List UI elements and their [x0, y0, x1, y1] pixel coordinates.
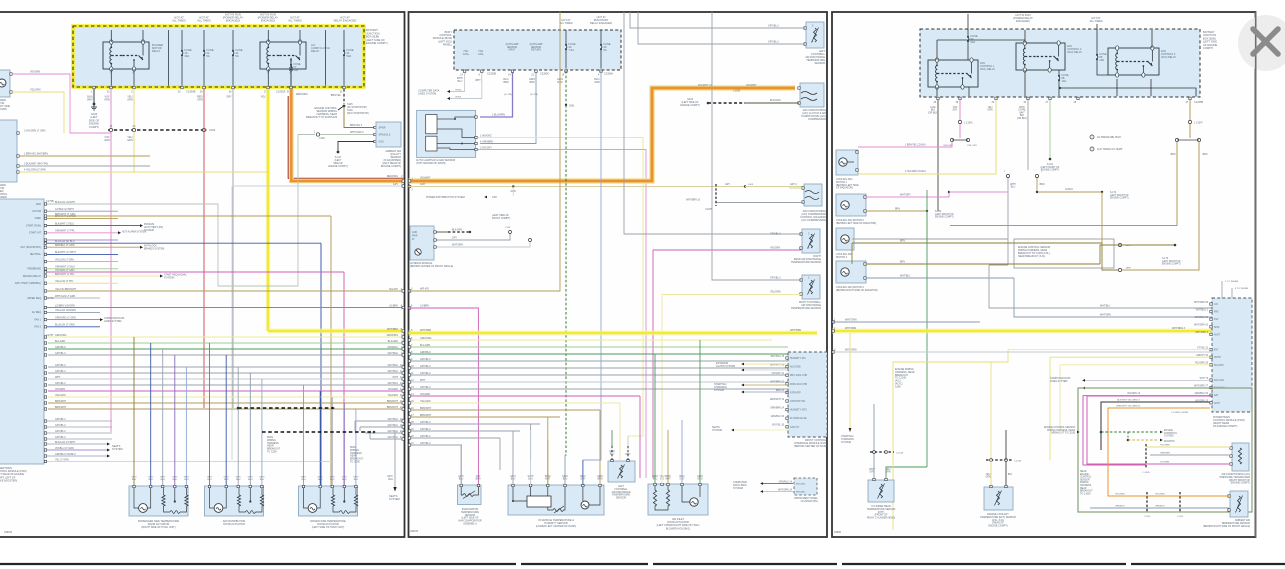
air inlet pin label 682 — [679, 476, 684, 481]
PCM pin row 5 — [44, 232, 46, 234]
splice right a — [1175, 138, 1178, 141]
solenoid wire label — [686, 200, 701, 202]
svg-text:VIO/LGN LT GRN: VIO/LGN LT GRN — [55, 258, 74, 261]
bundle left label 10 — [55, 364, 66, 367]
in-vehicle pin label 547.8 — [545, 476, 551, 481]
rr pin nums2 — [808, 247, 810, 250]
wire BLU/CAN down — [583, 71, 601, 460]
svg-text:1 BRN/YEL C1041A: 1 BRN/YEL C1041A — [905, 144, 926, 147]
p2 edge pin stub 13 — [408, 388, 410, 390]
svg-text:NEAR: NEAR — [1080, 487, 1087, 490]
passenger temperature door actuator pin 4 — [174, 485, 176, 487]
bundle pin stub 12 — [44, 378, 46, 380]
svg-text:BREAKOUT TO S125/S129: BREAKOUT TO S125/S129 — [306, 116, 337, 119]
edge pin p2 1 — [412, 178, 414, 181]
splice right bar — [1177, 139, 1199, 141]
FCIM pin 23 — [786, 391, 788, 393]
svg-text:YEL/: YEL/ — [886, 469, 891, 471]
svg-text:ENGINE COMPT): ENGINE COMPT) — [381, 165, 401, 168]
svg-text:GRY/BLU: GRY/BLU — [420, 372, 431, 375]
BCM pin 6 — [481, 70, 483, 72]
svg-text:GRY/BLU: GRY/BLU — [420, 421, 431, 424]
svg-text:C-1035: C-1035 — [1014, 461, 1022, 463]
air distribution door actuator pin 5 — [261, 485, 263, 487]
p2 row label 7 — [420, 344, 431, 347]
svg-text:BLK/WHT LT BLU: BLK/WHT LT BLU — [55, 222, 74, 225]
svg-text:WHT/BRN: WHT/BRN — [420, 329, 431, 332]
battery junction box BJB dashed border — [73, 26, 364, 87]
PCM p3 pin label 29 — [1195, 363, 1209, 365]
splice labels — [943, 145, 953, 147]
edge pin stub 18 — [402, 420, 404, 422]
BCM pin 4 num — [598, 74, 600, 77]
BJB pin 1 — [93, 86, 95, 88]
svg-text:AAT: AAT — [1214, 394, 1219, 397]
auto lamp pin4 label — [480, 141, 493, 144]
svg-text:1 C1041: 1 C1041 — [964, 123, 973, 125]
near harness note — [1080, 470, 1093, 495]
PCM p3 inner label 77 — [1214, 387, 1227, 390]
bundle left label 13 — [55, 382, 66, 385]
wire BRN right drop — [1189, 100, 1191, 120]
svg-text:YEL/GRN: YEL/GRN — [420, 400, 431, 403]
driver temperature door actuator motor — [308, 504, 317, 513]
wire YEL/GRN row — [1060, 364, 1212, 366]
bundle row label 13 — [388, 382, 399, 385]
svg-text:SPWS/CLK: SPWS/CLK — [379, 135, 391, 137]
svg-text:ENGINE COMPT): ENGINE COMPT) — [935, 217, 954, 219]
edge pin4 — [401, 305, 403, 308]
module inner labels — [412, 232, 418, 241]
svg-text:TEMPERATURE SENSOR: TEMPERATURE SENSOR — [791, 261, 821, 264]
svg-text:C-1035B C1035B: C-1035B C1035B — [1171, 412, 1189, 414]
svg-text:C-100: C-100 — [1177, 516, 1184, 518]
svg-text:VIO/: VIO/ — [953, 107, 958, 109]
svg-text:ENGINE COMPT): ENGINE COMPT) — [680, 104, 699, 107]
svg-text:BLU: BLU — [149, 479, 154, 481]
bundle pin stub 21 — [44, 438, 46, 440]
left footwell air discharge temperature sensor — [806, 22, 824, 48]
seat row arrow 0 — [107, 443, 110, 446]
svg-text:YEL/GRN: YEL/GRN — [55, 394, 66, 397]
svg-text:WHT/: WHT/ — [1019, 107, 1025, 109]
fan yellow label — [987, 107, 992, 112]
wire WHT/BRN solenoid — [716, 202, 803, 204]
PCM long pin 4 — [44, 290, 46, 292]
p2 row pin 21 — [411, 442, 414, 445]
dashed connector ambient a — [1146, 492, 1148, 512]
svg-text:WHT 76: WHT 76 — [1200, 378, 1209, 380]
transducer pin 3 — [1230, 463, 1232, 465]
cylinder head thermistor — [878, 484, 885, 499]
sensor inner label 3 — [379, 142, 384, 144]
bundle pin stub 13 — [44, 384, 46, 386]
harness dashed line C290b — [262, 431, 374, 433]
svg-text:VREF: VREF — [35, 217, 42, 220]
FCIM pin 23 inner label — [790, 391, 801, 394]
BCM pin 21 — [535, 70, 537, 72]
fan control 3 relay — [1108, 46, 1159, 77]
edge label3 — [389, 288, 398, 291]
svg-text:VIO/GRN 13: VIO/GRN 13 — [1127, 393, 1141, 395]
joint label — [1065, 189, 1073, 191]
label hot3 — [223, 13, 244, 23]
power distribution label GRY — [492, 196, 498, 199]
svg-text:FAN 1: FAN 1 — [34, 318, 41, 321]
wire WHT/BLU long run — [852, 238, 1008, 240]
actuator1 feed label 5 — [184, 477, 190, 482]
wire p2 row 18 — [409, 423, 541, 425]
svg-text:WHT/: WHT/ — [1010, 184, 1016, 186]
wire VIO/GRN inner loop — [1145, 447, 1147, 465]
junction S163 label — [748, 184, 754, 186]
svg-text:RUN/STM: RUN/STM — [1164, 441, 1175, 443]
svg-text:BRN: BRN — [476, 479, 481, 481]
svg-text:GRY/BLU: GRY/BLU — [55, 364, 66, 367]
p2 row pin 15 — [411, 400, 414, 403]
wire long row 4 — [47, 290, 404, 292]
svg-text:VIO/GRN: VIO/GRN — [30, 71, 40, 74]
svg-text:GRY/BLU: GRY/BLU — [770, 277, 781, 280]
junction fan3 right — [1174, 244, 1177, 247]
module caption — [410, 262, 453, 268]
air distribution door actuator internal wires — [210, 488, 263, 513]
transducer caption — [1220, 473, 1251, 485]
wire GRY thin yellow — [409, 186, 804, 188]
ect pin 2 — [1005, 485, 1007, 487]
svg-text:EVT: EVT — [1214, 350, 1219, 352]
svg-text:BLU: BLU — [161, 479, 166, 481]
wire p2 row 15 drop — [619, 403, 621, 460]
air inlet door actuator — [648, 484, 708, 515]
PCM p3 pin label 50 — [1194, 302, 1209, 304]
left pin 3 — [411, 288, 413, 291]
panel2 sheet code — [410, 530, 418, 533]
passenger temperature door actuator caption — [138, 520, 180, 529]
body control module BCM box — [454, 30, 621, 70]
svg-text:(LEFT SIDE OF HVAC UNIT): (LEFT SIDE OF HVAC UNIT) — [312, 526, 345, 529]
svg-text:WR-VIO: WR-VIO — [420, 288, 429, 291]
svg-text:GRN/BLU 22: GRN/BLU 22 — [1195, 317, 1209, 319]
legend 2 num — [1091, 149, 1093, 151]
engine compartment lamp module — [410, 226, 434, 260]
wire GRY/BLU footwell 4 — [638, 12, 805, 44]
edge pin stub 17 — [402, 408, 404, 410]
bundle left label 6 — [55, 334, 67, 337]
magenta loop — [1083, 394, 1210, 467]
computer data lines text — [418, 90, 440, 96]
wire BRN long run — [852, 242, 1102, 244]
svg-text:C-1035: C-1035 — [1142, 472, 1150, 474]
harness pointer line — [338, 107, 343, 111]
edge pin stub 6 — [402, 336, 404, 338]
seat row label 1 — [55, 447, 74, 450]
wire label anti — [387, 475, 393, 481]
air distribution door actuator pin 2 — [225, 485, 227, 487]
svg-text:GRN: GRN — [104, 98, 110, 101]
blower pin 1 — [10, 73, 12, 75]
svg-text:ENGINE: ENGINE — [1164, 430, 1173, 432]
PCM p3 inner label 22 — [1214, 319, 1219, 321]
svg-text:GRY: GRY — [226, 96, 232, 99]
wire GRY module b — [437, 232, 511, 240]
svg-text:IGN SW: IGN SW — [32, 210, 42, 213]
wire drop lf2 dashed — [627, 446, 629, 460]
svg-text:(6 LPM): (6 LPM) — [504, 94, 512, 96]
svg-text:INPUT: INPUT — [508, 49, 516, 52]
PCM row 14 name — [32, 311, 41, 314]
air inlet pin x700 — [699, 483, 701, 485]
wire fan ctl drop — [1027, 170, 1029, 278]
svg-text:(OR BLK): (OR BLK) — [928, 112, 938, 114]
svg-text:BLU: BLU — [330, 479, 335, 481]
fan2b label — [895, 209, 900, 211]
svg-text:GY/BLK GY/WHT: GY/BLK GY/WHT — [55, 208, 74, 211]
BJB p3 pin 25 num — [934, 101, 937, 104]
p2 edge pin stub 19 — [408, 430, 410, 432]
svg-text:5A: 5A — [235, 54, 238, 58]
BJB pin 15 number — [178, 90, 181, 93]
edge pin stub 15 — [402, 396, 404, 398]
svg-text:GRY/BLU: GRY/BLU — [388, 352, 399, 355]
bundle row pin 14 — [400, 388, 403, 391]
module pin in — [434, 246, 436, 248]
bundle pin stub 19 — [44, 426, 46, 428]
wire FAN CAN 2w — [1085, 387, 1212, 389]
svg-text:HUMIDITY WTS: HUMIDITY WTS — [790, 410, 807, 412]
dashed link yellow — [1128, 439, 1158, 441]
air distribution door actuator caption — [223, 520, 246, 526]
BLU wire label — [594, 78, 600, 84]
orange connector label — [733, 90, 741, 93]
svg-text:SYSTEM: SYSTEM — [714, 389, 724, 392]
bundle row pin 17 — [400, 406, 403, 409]
bundle pin stub 17 — [44, 408, 46, 410]
in-vehicle caption — [536, 519, 577, 528]
PCM row 2 name — [32, 210, 42, 213]
svg-text:SULOPN: SULOPN — [1214, 365, 1224, 367]
mid conn labels — [1004, 171, 1006, 173]
wire VIO fan feed — [959, 100, 961, 120]
svg-text:GRY/BLU: GRY/BLU — [420, 365, 431, 368]
svg-text:ENGINE CONTROL SENSOR: ENGINE CONTROL SENSOR — [1044, 427, 1075, 429]
PCM p3 pin 29 — [1210, 364, 1212, 366]
svg-text:BLK/WHT GY/WHT: BLK/WHT GY/WHT — [55, 251, 76, 254]
fan motor4 pin 2 — [864, 277, 866, 279]
blower pin 2 — [10, 91, 12, 93]
label hot6 — [334, 16, 357, 23]
svg-text:SYSTEM: SYSTEM — [1164, 436, 1174, 438]
svg-text:LIGHTS SYSTEM: LIGHTS SYSTEM — [716, 365, 735, 368]
right rear air discharge temperature sensor thermistor — [808, 234, 815, 249]
svg-text:ENGINE COMPT): ENGINE COMPT) — [1231, 482, 1250, 485]
fan control 2 relay name — [1067, 45, 1082, 54]
label hot p3b — [1089, 16, 1102, 23]
wire p2 row 17 — [409, 416, 561, 418]
wire WHT/BLU from conn — [989, 264, 1008, 266]
evap pin 1 — [460, 484, 462, 486]
svg-text:LINES SYSTEM: LINES SYSTEM — [1050, 380, 1067, 383]
svg-text:(6 LPM): (6 LPM) — [530, 94, 538, 96]
bundle row pin 11 — [400, 370, 403, 373]
left label 3 — [420, 288, 429, 291]
fuse Fx p3 — [1096, 50, 1098, 64]
svg-text:ALL TIMES: ALL TIMES — [172, 19, 186, 23]
bundle row label 19 — [388, 424, 399, 427]
in-vehicle pin label 600 — [597, 476, 603, 481]
junction caption C162 — [935, 211, 954, 219]
connector fan3 mid2 — [1118, 268, 1121, 271]
passenger temperature door actuator — [129, 486, 188, 516]
orange wire label mid — [698, 84, 713, 87]
wire p2 row 19 — [409, 430, 521, 432]
right footwell air discharge temperature sensor caption — [791, 301, 822, 310]
splice S125 label — [347, 103, 369, 115]
svg-text:ANTI-THEFT (IMMOBIL): ANTI-THEFT (IMMOBIL) — [15, 282, 41, 285]
bundle pin stub 16 — [44, 402, 46, 404]
BJB p3 pin 47 num — [1186, 101, 1189, 104]
p2 edge pin stub 16 — [408, 409, 410, 411]
wire VIO continues below C100 — [110, 132, 112, 433]
wire drop ai4 — [681, 420, 683, 484]
transducer conn label — [1142, 472, 1150, 474]
wire p2 row 21 — [409, 444, 463, 446]
svg-text:PIERBRAKE: PIERBRAKE — [27, 268, 41, 271]
relay K2 pin 85 — [267, 73, 269, 75]
solenoid coil symbol — [805, 191, 819, 200]
air inlet pin x662 — [661, 483, 663, 485]
diagram page 2 frame — [409, 12, 828, 537]
PCM row 13 wire label — [55, 295, 76, 298]
passenger temperature door actuator wiper dot — [174, 500, 176, 502]
junction harness dot2 — [1127, 439, 1130, 442]
wire BRN/YEL label — [331, 94, 342, 97]
lf bottom label2 — [625, 454, 631, 456]
mid wire label — [1010, 184, 1016, 189]
chs wire labels — [869, 469, 875, 474]
PCM row 5 system text — [122, 230, 146, 233]
CAN+ label — [457, 77, 463, 83]
fuse F69 p3 — [967, 32, 969, 46]
wire drop ai1 — [654, 354, 656, 484]
blower motor label — [0, 99, 10, 111]
edge pin stub 13 — [402, 384, 404, 386]
harness text a — [267, 436, 281, 454]
fuse F4 — [290, 58, 292, 76]
wire bundle row 21 elbow — [369, 431, 371, 439]
air inlet resistor 2 — [666, 490, 669, 506]
p3 data arrow 1 — [1082, 379, 1085, 382]
svg-text:WHT/LGN LT GRN: WHT/LGN LT GRN — [55, 295, 76, 298]
harness note S125 — [306, 107, 337, 119]
svg-text:WHT/GRN 77: WHT/GRN 77 — [1194, 385, 1209, 387]
orange wire label right — [746, 84, 757, 87]
A/C clutch coil symbol — [801, 92, 817, 101]
connector C2280A — [604, 73, 613, 76]
auto lamp inner cell 1 — [426, 115, 437, 134]
svg-text:NEAR BREAKOUT (3.0L): NEAR BREAKOUT (3.0L) — [1018, 255, 1046, 258]
svg-text:BRN: BRN — [1203, 154, 1208, 156]
BJB pin 36 — [232, 86, 234, 88]
wire WHT/GRN left edge — [832, 321, 980, 323]
wire to ext lights 2 — [744, 369, 788, 371]
svg-text:WIRING: WIRING — [1080, 482, 1089, 484]
arrow down yellow p3 — [849, 428, 852, 432]
PCM row 5 name — [29, 232, 42, 235]
seats bottom right text — [389, 494, 400, 501]
svg-text:(OR BLK): (OR BLK) — [1017, 118, 1027, 120]
junction S290a — [237, 407, 240, 410]
bundle left label 7 — [55, 340, 66, 343]
svg-text:BLU: BLU — [260, 479, 265, 481]
PCM row 12 wire label — [55, 280, 74, 283]
lf bottom pin 2 — [627, 459, 629, 461]
svg-text:GRY/BLU: GRY/BLU — [388, 382, 399, 385]
PCM p3 inner label 50 — [1214, 304, 1218, 306]
wire PCM row 5 — [47, 232, 118, 234]
wire YEL speed ctl long — [19, 171, 268, 173]
PCM p3 inner label 1 — [1214, 312, 1219, 314]
inline connector C100b — [316, 133, 319, 136]
svg-text:FSV: FSV — [1214, 319, 1219, 321]
PCM row 11 name — [23, 275, 41, 278]
svg-text:AC REQ: AC REQ — [32, 311, 41, 314]
svg-text:WHT/GRY: WHT/GRY — [900, 195, 911, 197]
bundle left label 8 — [55, 346, 66, 349]
fan control 3 relay name — [1161, 50, 1176, 59]
wire p2 row 18 drop — [531, 424, 540, 460]
wire BRN down b — [1122, 141, 1199, 270]
svg-text:WHT/BLU: WHT/BLU — [900, 276, 911, 278]
svg-text:BLU: BLU — [388, 478, 393, 481]
svg-text:VIO/WHT: VIO/WHT — [746, 84, 757, 87]
svg-text:MS/CAN+: MS/CAN+ — [796, 483, 807, 486]
blower motor relay K1 name — [152, 43, 163, 53]
svg-text:S-162: S-162 — [935, 211, 942, 213]
PCM p3 pin 77 — [1210, 386, 1212, 388]
seats arrow p2 — [731, 429, 734, 432]
module wire label c — [452, 245, 463, 247]
wire WHT/GRN loop — [47, 135, 315, 287]
wire VIO label — [104, 96, 110, 102]
wire bundle row BRN/WHT 16 — [48, 402, 404, 404]
svg-text:ENGAGED): ENGAGED) — [1016, 19, 1030, 23]
PCM row 7 arrow — [140, 246, 143, 249]
relay output wire 4 — [290, 69, 292, 86]
driver temperature door actuator pin 2 — [319, 485, 321, 487]
svg-text:C1035A: C1035A — [276, 89, 286, 93]
driver temperature door actuator pin 3 — [331, 485, 333, 487]
wire actuator2 feed 4 — [249, 373, 251, 486]
svg-text:BLU: BLU — [354, 479, 359, 481]
pin 20 label — [133, 125, 136, 128]
A/C compressor caption — [801, 109, 826, 121]
actuator2 feed label 4 — [248, 477, 254, 482]
BJB p3 pin 36 num — [956, 101, 959, 104]
svg-text:CAN+: CAN+ — [463, 53, 470, 56]
fuse bottom wire 3 — [232, 62, 234, 86]
actuator1 feed label 2 — [148, 477, 154, 482]
svg-text:BLK/LGN LG/WHT: BLK/LGN LG/WHT — [55, 201, 76, 204]
driver temperature door actuator wiper dot — [343, 500, 345, 502]
svg-text:GRY/BLU: GRY/BLU — [388, 418, 399, 421]
wire bundle row GRY/BLU 11 — [48, 372, 404, 374]
wire PCM row 12 — [47, 282, 118, 284]
svg-text:SYSTEM: SYSTEM — [112, 447, 123, 451]
transducer pin 2 — [1230, 455, 1232, 457]
air distribution door actuator wiper dot — [249, 500, 251, 502]
wire VIO fan feed 2 — [959, 124, 961, 138]
